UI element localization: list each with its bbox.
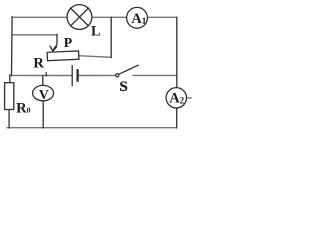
svg-text:P: P (64, 35, 73, 50)
wiper arm of rheostat P (54, 34, 57, 49)
resistor R (rheostat body) (47, 51, 79, 61)
wire A1 to top-right corner (147, 16, 176, 18)
battery short plate (76, 70, 78, 80)
voltmeter V bottom lead (42, 101, 44, 128)
battery long plate (71, 66, 73, 86)
svg-text:S: S (119, 78, 127, 95)
resistor R0 (5, 83, 14, 110)
voltmeter V (33, 85, 54, 100)
wire top rail: left node to lamp (12, 16, 67, 18)
ammeter A2 (166, 88, 186, 108)
wire stub right of A2 (187, 97, 192, 99)
svg-text:L: L (91, 23, 100, 39)
wire lamp to ammeter A1 (92, 16, 127, 18)
voltmeter V top lead (42, 76, 44, 86)
wire A2 bottom lead (176, 108, 178, 128)
wire rheostat right lead (horizontal run) (79, 56, 111, 58)
ammeter A1 (127, 7, 148, 28)
svg-text:V: V (39, 88, 49, 103)
wire switch to right bus (133, 74, 177, 76)
lamp L (67, 5, 92, 30)
wire second rail to wiper P (12, 34, 57, 36)
svg-text:R: R (33, 56, 44, 72)
arrowhead of wiper P (50, 46, 57, 51)
wire R0 bottom lead (8, 109, 10, 128)
wire bottom rail (7, 127, 177, 129)
wire left vertical bus (11, 17, 14, 76)
switch S pivot circle (116, 74, 119, 77)
wire mid rail to battery (12, 74, 71, 76)
wire right vertical bus (176, 17, 178, 88)
switch S blade (119, 65, 139, 74)
wire R0 top lead (9, 75, 11, 83)
wire rheostat lower-left lead stub (45, 73, 47, 76)
wire battery to switch pivot (79, 74, 116, 76)
wire rheostat right lead (vertical riser to top rail) (110, 17, 112, 57)
